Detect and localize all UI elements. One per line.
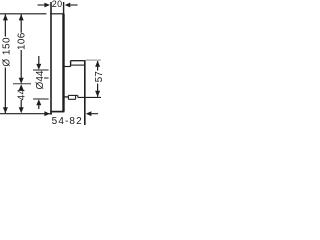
slot bottom xyxy=(68,98,75,100)
handle centre extension line xyxy=(13,83,31,85)
svg-text:44: 44 xyxy=(16,89,27,101)
57 ext top (light) xyxy=(86,59,101,61)
arrow 20 left (right-pointing) xyxy=(44,3,50,8)
handle top edge xyxy=(70,60,85,62)
dim line 44 lower xyxy=(20,100,22,108)
dim line 106 upper xyxy=(20,14,22,32)
svg-text:20: 20 xyxy=(52,0,63,9)
plate right edge xyxy=(62,14,64,112)
arrow 20 right (left-pointing) xyxy=(65,3,71,8)
slot right xyxy=(75,95,77,99)
57 dim line lower xyxy=(97,84,99,97)
dim line D44 overshoot bottom xyxy=(38,105,40,110)
arrow 44 bottom xyxy=(19,107,24,113)
handle step vertical xyxy=(70,61,72,67)
svg-text:Ø44: Ø44 xyxy=(35,70,46,89)
arrow 106 bottom xyxy=(19,78,24,84)
dim line D44 overshoot top xyxy=(38,56,40,64)
57 dim line upper xyxy=(97,61,99,71)
plate left edge + 20/54-82 extension xyxy=(50,2,52,115)
arrow 106 top xyxy=(19,14,24,20)
bottom extension line xyxy=(0,113,52,115)
arrow 57 bottom xyxy=(95,91,100,97)
arrow D150 top xyxy=(3,14,8,20)
svg-text:54-82: 54-82 xyxy=(52,116,83,125)
neck bottom edge xyxy=(64,96,68,98)
54-82 arrow tail right xyxy=(91,113,98,115)
svg-text:Ø 150: Ø 150 xyxy=(2,37,13,67)
top extension line xyxy=(0,13,47,15)
arrow 44 top xyxy=(19,84,24,90)
ext line D44 bottom xyxy=(33,98,49,100)
dim line 44 upper xyxy=(20,88,22,91)
svg-text:57: 57 xyxy=(94,71,104,83)
short tick y78 xyxy=(44,77,49,79)
handle groove line xyxy=(71,64,84,66)
arrow 57 top xyxy=(95,61,100,67)
20 right extension xyxy=(63,2,65,14)
20 arrow tail left xyxy=(38,4,46,6)
arrow D44 bottom (outside, up) xyxy=(36,99,41,105)
arrow 54-82 left (right-pointing) xyxy=(44,111,50,116)
dim line 106 lower xyxy=(20,50,22,79)
arrow D44 top (outside, down) xyxy=(36,64,41,70)
slot left xyxy=(67,95,69,99)
20 arrow tail right xyxy=(71,4,78,6)
handle bottom edge xyxy=(68,94,77,96)
57 ext bottom xyxy=(78,96,101,98)
arrow 54-82 right (left-pointing) xyxy=(86,111,92,116)
dim line D150 upper xyxy=(4,14,6,36)
plate top edge xyxy=(50,13,64,15)
handle bottom step xyxy=(77,95,79,97)
arrow D150 bottom xyxy=(3,107,8,113)
handle right edge + 54-82 extension xyxy=(84,61,86,125)
svg-text:106: 106 xyxy=(16,32,27,50)
plate bottom edge xyxy=(50,111,64,113)
dim line D150 lower xyxy=(4,68,6,114)
neck top edge xyxy=(64,66,70,68)
ext line D44 top xyxy=(33,69,49,71)
